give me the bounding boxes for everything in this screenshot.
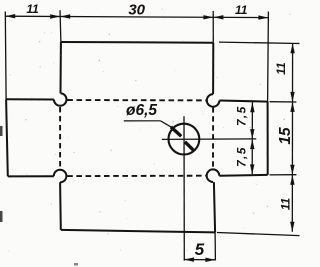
svg-text:11: 11 bbox=[279, 197, 293, 210]
right outer dimension line bbox=[291, 43, 293, 231]
bottom dimension line 5 bbox=[184, 259, 216, 261]
extension line x=213 above tab bbox=[212, 11, 214, 43]
arrow tip up at y=102 inner bbox=[250, 102, 254, 112]
arrow tip down at y=174.4 inner bbox=[250, 164, 254, 174]
outline: top tab top edge bbox=[61, 41, 213, 44]
hidden edge: band bottom dashed bbox=[67, 175, 207, 177]
extension line x=215 below tab bbox=[214, 232, 216, 260]
svg-text:30: 30 bbox=[128, 2, 145, 19]
hole circle bbox=[169, 124, 200, 155]
arrow pair at x=60 bbox=[50, 14, 70, 18]
extension line x=60 above tab bbox=[59, 10, 62, 42]
leader underline bbox=[124, 120, 161, 122]
svg-text:ø6,5: ø6,5 bbox=[126, 102, 157, 119]
svg-text:15: 15 bbox=[277, 127, 294, 145]
arrow tip down at y=231.7 bbox=[290, 222, 294, 232]
svg-text:11: 11 bbox=[274, 62, 288, 75]
right inner dimension line 7.5s bbox=[251, 102, 253, 174]
arrow pair at y=175 outer bbox=[290, 165, 294, 185]
corner relief notch top-right bbox=[207, 94, 220, 107]
outline: bottom tab left edge bbox=[59, 182, 62, 230]
hidden edge: right tab side dashed bbox=[212, 107, 214, 168]
arrow pair at y=102 outer bbox=[290, 92, 294, 112]
extension line y=102 right of band bbox=[270, 101, 297, 103]
top dimension line bbox=[5, 16, 268, 17]
arrow pair at x=213.5 bbox=[203, 15, 223, 19]
svg-text:11: 11 bbox=[26, 2, 39, 16]
corner relief notch top-left bbox=[54, 93, 67, 106]
corner relief notch bottom-right bbox=[207, 169, 220, 182]
extension line y=175 right of band bbox=[270, 174, 297, 176]
scan artifact left edge upper bbox=[0, 126, 3, 136]
extension line y=42 right of tab bbox=[219, 42, 300, 43]
svg-text:11: 11 bbox=[235, 3, 248, 17]
outline: top tab right edge bbox=[212, 43, 214, 94]
leader arrow stroke upper bbox=[171, 127, 181, 136]
outline: band bottom edge right solid bbox=[219, 174, 267, 177]
paper speckle noise bbox=[97, 41, 98, 42]
hole horizontal centerline bbox=[162, 138, 256, 141]
leader diagonal line bbox=[160, 121, 172, 128]
arrow pair at y=139 inner bbox=[250, 129, 254, 149]
extension line y=233 right of bottom tab bbox=[217, 233, 300, 236]
outline: bottom tab right edge bbox=[214, 182, 215, 232]
scan artifact bottom dot bbox=[74, 263, 78, 266]
outline: band left edge bbox=[6, 99, 8, 176]
scan artifact left edge lower bbox=[0, 211, 3, 222]
arrow tip right at x=215.4 bottom bbox=[205, 258, 215, 262]
svg-text:7,5: 7,5 bbox=[235, 105, 249, 126]
outline: band right edge bbox=[267, 102, 269, 175]
outline: band bottom edge left solid bbox=[8, 175, 54, 177]
hole vertical centerline bbox=[183, 116, 185, 260]
corner relief notch bottom-left bbox=[54, 170, 67, 183]
outline: top tab left edge bbox=[60, 42, 62, 93]
outline: bottom tab bottom edge bbox=[61, 230, 215, 233]
arrow tip left at x=5 bbox=[5, 14, 15, 18]
svg-text:5: 5 bbox=[195, 240, 205, 259]
extension line left x=5 bbox=[4, 12, 7, 100]
arrow tip left at x=184 bottom bbox=[184, 257, 194, 261]
hidden edge: band top dashed bbox=[67, 99, 206, 101]
arrow tip right at x=268 bbox=[258, 15, 268, 19]
svg-text:7,5: 7,5 bbox=[235, 146, 249, 167]
hidden edge: left tab side dashed bbox=[59, 107, 61, 168]
extension line x=268 right bbox=[267, 12, 270, 102]
arrow tip up at y=43 bbox=[290, 43, 294, 53]
outline: band top edge right solid bbox=[219, 101, 267, 102]
outline: band top edge left solid bbox=[6, 98, 54, 100]
leader arrow stroke lower bbox=[185, 142, 193, 150]
